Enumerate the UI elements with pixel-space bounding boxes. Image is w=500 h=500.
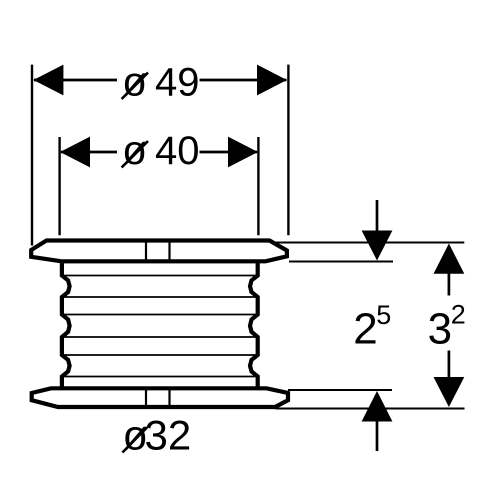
body groove line 2 top — [63, 314, 257, 316]
dimension ø40 extension line left — [58, 137, 60, 235]
svg-text:ø: ø — [122, 127, 147, 173]
bottom flange seam line left — [145, 389, 147, 407]
top flange seam line right — [168, 241, 170, 261]
svg-text:2: 2 — [353, 305, 377, 354]
body groove line 3 top — [63, 354, 257, 356]
svg-text:49: 49 — [155, 61, 200, 105]
arrowhead ø40 right — [228, 137, 258, 168]
svg-text:2: 2 — [451, 300, 466, 330]
dimension 25 top extension line — [289, 261, 393, 263]
arrowhead 32 bottom — [434, 377, 465, 407]
dimension ø49 extension line right — [287, 65, 289, 236]
dimension ø40 extension line right — [257, 137, 259, 235]
dimension 32 bottom extension line — [276, 408, 465, 410]
arrowhead ø40 left — [60, 137, 90, 168]
bottom flange outline — [32, 388, 288, 407]
arrowhead ø49 right — [257, 65, 287, 96]
svg-text:3: 3 — [428, 305, 452, 354]
svg-text:40: 40 — [155, 129, 200, 173]
body groove line 1 bottom — [63, 296, 257, 298]
dimension 25 top arrow stem — [376, 200, 379, 232]
dimension 25 bottom arrow stem — [376, 420, 379, 451]
dimension line ø40 — [61, 151, 117, 154]
dimension line ø49 — [34, 79, 117, 82]
svg-text:5: 5 — [376, 300, 391, 330]
arrowhead 25 bottom — [362, 391, 393, 422]
arrowhead ø49 left — [33, 65, 63, 96]
body groove line 3 bottom — [63, 376, 257, 378]
dimension 32 line upper segment — [448, 273, 451, 296]
svg-text:ø: ø — [122, 59, 147, 105]
dimension 32 top extension line — [274, 242, 464, 244]
svg-text:32: 32 — [145, 412, 192, 459]
dimension ø49 extension line left — [31, 65, 33, 246]
arrowhead 25 top — [362, 231, 393, 261]
corrugated body outline — [62, 261, 258, 389]
bottom flange seam line right — [168, 389, 170, 407]
dimension 25 bottom extension line — [288, 389, 392, 391]
arrowhead 32 top — [434, 244, 465, 274]
top flange seam line left — [145, 241, 147, 261]
body groove line 2 bottom — [63, 336, 257, 338]
top flange outline — [31, 241, 287, 262]
body groove line 1 top — [63, 275, 257, 277]
dimension 32 line lower segment — [448, 351, 451, 379]
